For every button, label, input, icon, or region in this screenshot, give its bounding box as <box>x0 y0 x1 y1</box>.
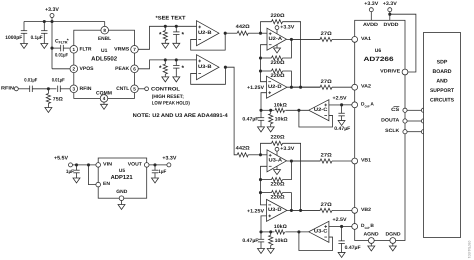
svg-text:+3.3V: +3.3V <box>280 25 295 31</box>
svg-text:CIRCUITS: CIRCUITS <box>430 98 455 104</box>
svg-text:RFIN: RFIN <box>1 85 15 91</box>
svg-text:U2-C: U2-C <box>314 107 328 113</box>
svg-text:CNTL: CNTL <box>116 86 129 92</box>
svg-text:10kΩ: 10kΩ <box>274 102 287 108</box>
svg-text:NOTE: U2 AND U3 ARE ADA4891-4: NOTE: U2 AND U3 ARE ADA4891-4 <box>133 113 228 119</box>
svg-text:(HIGH RESET;: (HIGH RESET; <box>152 94 184 100</box>
svg-text:BOARD: BOARD <box>432 69 451 75</box>
svg-text:VB2: VB2 <box>361 207 371 213</box>
svg-text:10kΩ: 10kΩ <box>275 238 288 244</box>
svg-text:U3-C: U3-C <box>314 229 328 235</box>
svg-text:27Ω: 27Ω <box>321 153 332 159</box>
svg-text:LOW PEAK HOLD): LOW PEAK HOLD) <box>152 101 190 107</box>
svg-text:0.47µF: 0.47µF <box>242 238 258 244</box>
svg-text:27Ω: 27Ω <box>321 31 332 37</box>
svg-text:EN: EN <box>103 181 111 187</box>
svg-text:+3.3V: +3.3V <box>162 155 177 161</box>
svg-text:CAP: CAP <box>365 104 370 108</box>
svg-text:75Ω: 75Ω <box>53 96 63 102</box>
svg-text:VOUT: VOUT <box>128 161 142 167</box>
svg-text:FLTR: FLTR <box>80 46 92 52</box>
svg-text:PEAK: PEAK <box>115 66 129 72</box>
svg-text:+3.3V: +3.3V <box>364 1 379 7</box>
svg-text:SDP: SDP <box>437 60 448 66</box>
svg-text:+3.3V: +3.3V <box>280 146 295 152</box>
svg-text:10kΩ: 10kΩ <box>274 224 287 230</box>
svg-text:U2-B: U2-B <box>198 30 212 36</box>
svg-text:COMM: COMM <box>96 91 112 97</box>
svg-text:0.01µF: 0.01µF <box>55 52 68 58</box>
svg-text:220Ω: 220Ω <box>271 60 285 66</box>
svg-text:27Ω: 27Ω <box>321 202 332 208</box>
svg-text:SCLK: SCLK <box>385 128 400 134</box>
svg-text:1: 1 <box>73 47 76 52</box>
svg-text:3: 3 <box>73 87 76 92</box>
svg-text:RFIN: RFIN <box>80 86 92 92</box>
svg-text:+2.5V: +2.5V <box>333 96 348 102</box>
svg-text:0.1µF: 0.1µF <box>31 35 43 41</box>
svg-text:0.01µF: 0.01µF <box>52 77 65 83</box>
svg-text:7: 7 <box>133 47 136 52</box>
svg-text:U3-B: U3-B <box>198 64 212 70</box>
svg-text:ADL5502: ADL5502 <box>91 55 118 62</box>
svg-text:U1: U1 <box>101 48 108 54</box>
svg-text:+1.25V: +1.25V <box>247 208 265 214</box>
svg-text:VRMS: VRMS <box>114 46 130 52</box>
svg-text:0.47µF: 0.47µF <box>345 245 361 251</box>
svg-text:220Ω: 220Ω <box>271 195 285 201</box>
svg-text:27Ω: 27Ω <box>321 79 332 85</box>
svg-text:4: 4 <box>103 96 106 101</box>
svg-text:DOUTA: DOUTA <box>381 118 400 124</box>
svg-text:+2.5V: +2.5V <box>333 217 348 223</box>
svg-text:220Ω: 220Ω <box>271 182 285 188</box>
svg-text:8: 8 <box>103 28 106 33</box>
svg-text:220Ω: 220Ω <box>271 13 285 19</box>
svg-text:U2-D: U2-D <box>268 84 282 90</box>
svg-text:0.47µF: 0.47µF <box>334 126 350 132</box>
svg-text:220Ω: 220Ω <box>271 135 285 141</box>
svg-text:1µF: 1µF <box>66 169 74 175</box>
svg-text:*SEE TEXT: *SEE TEXT <box>156 16 187 22</box>
svg-text:A: A <box>370 101 374 107</box>
svg-text:6: 6 <box>133 67 136 72</box>
svg-text:VDRIVE: VDRIVE <box>380 69 401 75</box>
svg-text:+3.3V: +3.3V <box>383 1 398 7</box>
svg-text:ADP121: ADP121 <box>111 174 134 181</box>
svg-text:VB1: VB1 <box>361 158 371 164</box>
svg-text:B: B <box>370 223 374 229</box>
svg-text:DGND: DGND <box>386 231 402 237</box>
svg-text:VIN: VIN <box>103 161 113 167</box>
svg-text:GND: GND <box>116 189 128 195</box>
svg-text:DVDD: DVDD <box>384 22 400 28</box>
svg-text:U3-D: U3-D <box>268 207 282 213</box>
svg-text:0.01µF: 0.01µF <box>24 77 37 83</box>
svg-text:U2-A: U2-A <box>269 36 283 42</box>
svg-text:U6: U6 <box>375 48 382 54</box>
svg-text:AGND: AGND <box>364 231 380 237</box>
svg-text:AND: AND <box>436 79 447 85</box>
svg-text:+1.25V: +1.25V <box>247 85 265 91</box>
svg-text:1µF: 1µF <box>158 169 166 175</box>
svg-text:AVDD: AVDD <box>363 22 379 28</box>
svg-text:CONTROL: CONTROL <box>151 87 180 93</box>
svg-text:AD7266: AD7266 <box>364 56 395 63</box>
svg-text:VA1: VA1 <box>361 36 371 42</box>
svg-text:442Ω: 442Ω <box>236 146 250 152</box>
svg-text:09754-001: 09754-001 <box>467 241 471 259</box>
svg-text:2: 2 <box>73 67 76 72</box>
svg-text:*: * <box>67 38 69 44</box>
svg-text:10kΩ: 10kΩ <box>275 116 288 122</box>
svg-text:1000pF: 1000pF <box>5 35 22 41</box>
svg-text:+5.5V: +5.5V <box>54 155 69 161</box>
svg-text:+3.3V: +3.3V <box>45 7 59 13</box>
svg-text:442Ω: 442Ω <box>236 24 250 30</box>
svg-text:220Ω: 220Ω <box>271 73 285 79</box>
svg-text:VPOS: VPOS <box>80 66 95 72</box>
svg-text:0.47µF: 0.47µF <box>242 116 258 122</box>
svg-text:VA2: VA2 <box>361 84 371 90</box>
svg-text:CS: CS <box>391 107 400 113</box>
svg-text:5: 5 <box>133 87 136 92</box>
svg-text:U3-A: U3-A <box>269 158 283 164</box>
svg-text:SUPPORT: SUPPORT <box>430 88 455 94</box>
svg-text:ENBL: ENBL <box>98 36 111 42</box>
svg-text:CAP: CAP <box>365 226 370 230</box>
svg-text:U5: U5 <box>119 168 125 174</box>
